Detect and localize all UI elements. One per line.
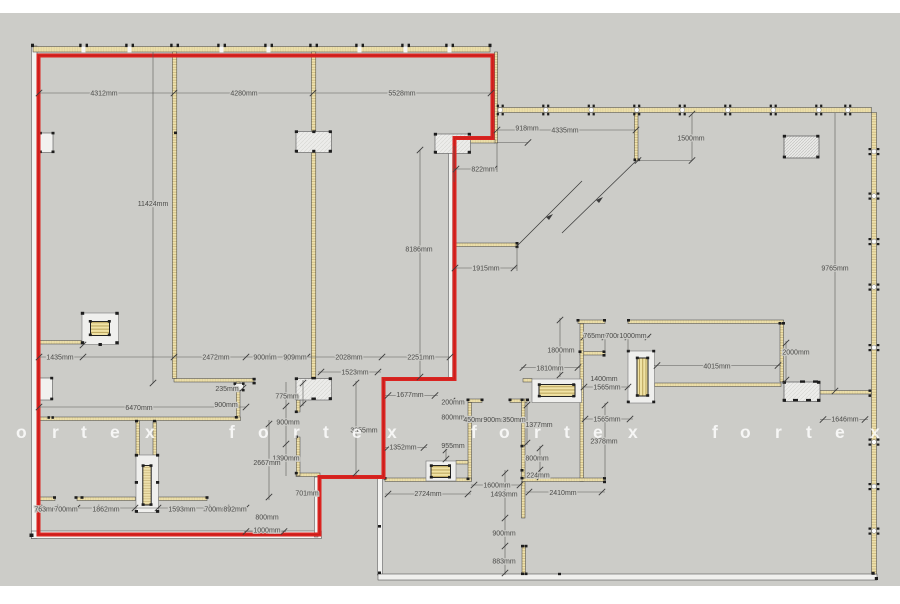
svg-text:9765mm: 9765mm	[821, 266, 848, 273]
svg-text:2410mm: 2410mm	[549, 490, 576, 497]
dimension 2000 line x=786	[785, 341, 787, 382]
wall: vertical stub x=298 lower	[296, 437, 300, 476]
dimension 235 leader	[240, 385, 246, 391]
watermark fortex block 2	[229, 422, 397, 442]
wall: bottom-wing south white band	[378, 574, 877, 580]
hatched column in right wing y=392	[783, 380, 821, 401]
svg-text:4280mm: 4280mm	[230, 91, 257, 98]
dimension 918/4335 line y=130	[497, 129, 636, 131]
wall: vertical x=523 lower stub to 518	[522, 482, 526, 519]
svg-text:900mm: 900mm	[492, 531, 516, 538]
svg-text:11424mm: 11424mm	[138, 201, 169, 208]
assorted black wall-end ticks	[30, 131, 879, 581]
dimension 8186 line x=420	[419, 150, 421, 377]
svg-text:1800mm: 1800mm	[547, 348, 574, 355]
dimension 4015 line y=365.5	[654, 365, 781, 367]
wall: wing interior vertical x=636	[634, 113, 638, 161]
wall: wing vertical x=582	[580, 324, 584, 482]
svg-text:800mm: 800mm	[255, 515, 279, 522]
wall: lower partition y=498 seg2	[77, 497, 136, 501]
svg-text:e: e	[835, 422, 845, 442]
wall: stub y=462	[456, 461, 468, 465]
svg-text:1810mm: 1810mm	[536, 366, 563, 373]
wall: stub y=401 seg1	[468, 399, 482, 403]
dimension 1352 line y=447.5	[385, 447, 427, 449]
dimension row y=508	[39, 507, 246, 509]
svg-text:4015mm: 4015mm	[703, 364, 730, 371]
dimension 1677 line y=395.5	[385, 395, 438, 397]
svg-text:r: r	[775, 422, 782, 442]
wall: bottom-wing west white band	[377, 478, 382, 575]
svg-text:e: e	[593, 422, 603, 442]
column box on wall B y=389	[295, 377, 332, 400]
svg-text:o: o	[499, 422, 510, 442]
svg-text:235mm: 235mm	[215, 386, 239, 393]
dimension 1000 line y=531	[244, 531, 286, 533]
wall: y=480 west segment	[385, 478, 472, 482]
svg-text:r: r	[52, 422, 59, 442]
svg-text:1565mm: 1565mm	[593, 385, 620, 392]
svg-text:4312mm: 4312mm	[90, 91, 117, 98]
svg-text:909mm: 909mm	[283, 355, 307, 362]
wall: wing partition y=322 seg1	[578, 320, 605, 324]
svg-text:2667mm: 2667mm	[253, 460, 280, 467]
svg-text:r: r	[293, 422, 300, 442]
svg-text:8186mm: 8186mm	[405, 247, 432, 254]
wall: vertical x=523	[522, 400, 526, 478]
dimension row y=357	[39, 356, 450, 358]
svg-text:o: o	[258, 422, 269, 442]
dimension 6470 line y=407	[39, 406, 246, 408]
watermark fortex block 4	[712, 422, 880, 442]
wall: right-wing west strip beside red	[495, 52, 498, 143]
wall: wing horizontal y=385	[655, 383, 782, 387]
dimension 1377 line x=527	[526, 403, 528, 445]
wall: right-wing top band	[498, 108, 872, 113]
svg-text:t: t	[564, 422, 570, 442]
wall: stub y=380 to wide box	[523, 379, 532, 383]
wall: horizontal band y=380 from wall A	[174, 379, 254, 383]
svg-text:765mm: 765mm	[583, 333, 607, 340]
column box on wall B y=142	[295, 130, 332, 152]
wall: top exterior band (left building)	[33, 47, 490, 53]
wall: white band left of red segment x=319	[314, 477, 318, 537]
column box on wall x=453 y=143	[434, 133, 471, 154]
dimension 9765 line x=835	[834, 113, 836, 391]
wall: left exterior white band	[31, 46, 37, 539]
svg-text:1000mm: 1000mm	[253, 527, 280, 534]
svg-text:900mm: 900mm	[253, 355, 277, 362]
wall: tan under red y=475	[296, 473, 320, 477]
stair shaft x=147 y=484	[135, 454, 159, 513]
svg-text:1593mm: 1593mm	[168, 507, 195, 514]
svg-text:f: f	[471, 422, 477, 442]
dimension 2378 line x=605	[604, 403, 606, 478]
svg-text:1862mm: 1862mm	[92, 507, 119, 514]
svg-text:t: t	[806, 422, 812, 442]
svg-text:2472mm: 2472mm	[202, 355, 229, 362]
dimension 1565 line y=387	[582, 386, 630, 388]
dimension 1646 line y=419.5	[820, 419, 868, 421]
wall: tan under red step y=141	[455, 140, 495, 144]
wall: wing stub y=353	[580, 352, 605, 356]
svg-text:t: t	[81, 422, 87, 442]
junction tick on east wall at y=392	[869, 390, 872, 397]
wall: stub y=401 seg2	[510, 399, 527, 403]
dimension 2410 line y=492	[526, 491, 605, 493]
svg-text:f: f	[229, 422, 235, 442]
dimension 1435 extension	[80, 342, 86, 348]
svg-text:700mm: 700mm	[54, 507, 78, 514]
wall: vertical x=470	[468, 403, 472, 481]
wall: corridor wall east x=155	[153, 421, 157, 458]
column box on left wall y=388	[37, 377, 53, 400]
svg-text:775mm: 775mm	[275, 394, 299, 401]
window gaps on top band	[82, 46, 452, 52]
svg-text:1400mm: 1400mm	[590, 376, 617, 383]
dimension 1800 line x=560	[559, 318, 561, 377]
small column box x=239 y=387	[234, 383, 245, 392]
svg-text:822mm: 822mm	[471, 167, 495, 174]
svg-text:t: t	[323, 422, 329, 442]
svg-text:200mm: 200mm	[441, 400, 465, 407]
dimension 800/224 line x=540	[539, 446, 541, 478]
svg-text:o: o	[740, 422, 751, 442]
svg-text:2251mm: 2251mm	[407, 355, 434, 362]
black ticks above top band	[31, 44, 492, 47]
svg-text:1915mm: 1915mm	[472, 266, 499, 273]
wall: interior vertical wall A x=174	[172, 52, 176, 379]
svg-text:800mm: 800mm	[441, 415, 465, 422]
watermark fortex block 3	[471, 422, 638, 442]
dimension 2667 line x=269	[268, 420, 270, 500]
wall: lower partition y=498 seg1	[39, 497, 55, 501]
svg-text:701mm: 701mm	[295, 491, 319, 498]
svg-text:o: o	[16, 422, 27, 442]
svg-text:883mm: 883mm	[492, 559, 516, 566]
wall: corridor wall west x=138	[136, 421, 140, 458]
wall: lower partition y=498 seg3	[159, 497, 208, 501]
svg-text:900mm: 900mm	[214, 402, 238, 409]
wall: 1915 stub y=244	[455, 243, 518, 247]
svg-text:1500mm: 1500mm	[677, 136, 704, 143]
svg-text:1600mm: 1600mm	[483, 483, 510, 490]
wall: y=480 east segment	[522, 478, 605, 482]
svg-text:e: e	[110, 422, 120, 442]
svg-text:1435mm: 1435mm	[46, 355, 73, 362]
svg-text:x: x	[387, 422, 397, 442]
window circles on right-wing top band	[497, 105, 852, 116]
wall: wing horizontal y=392 east	[820, 391, 872, 395]
svg-text:2724mm: 2724mm	[414, 491, 441, 498]
svg-text:224mm: 224mm	[526, 473, 550, 480]
wall: wing partition y=322 seg2	[628, 320, 784, 324]
hatched column in right wing y=147	[783, 135, 820, 159]
dimension 4312/4280/5528 line y=93	[39, 92, 491, 94]
wall: long interior wall y=418	[39, 417, 241, 421]
dimension 200 leader	[449, 398, 455, 404]
wall: vertical stub x=298 upper	[296, 400, 300, 412]
svg-text:1493mm: 1493mm	[490, 492, 517, 499]
wood column at x=100 y=328	[81, 312, 119, 346]
dimension 11424 line x=153	[152, 52, 154, 383]
svg-text:r: r	[534, 422, 541, 442]
red outline dark inner edge	[39, 56, 493, 535]
dimension 1600 line y=485	[471, 484, 523, 486]
watermark fortex block 1	[0, 422, 155, 442]
svg-text:1000mm: 1000mm	[619, 333, 646, 340]
dimension 822 line y=169	[453, 168, 497, 170]
svg-text:5528mm: 5528mm	[388, 91, 415, 98]
dimension 775 line x=303	[302, 380, 304, 406]
svg-text:800mm: 800mm	[525, 456, 549, 463]
svg-text:918mm: 918mm	[515, 126, 539, 133]
wall: bottom exterior white band (left building)	[31, 531, 321, 539]
wood column x=441 y=471	[426, 461, 456, 481]
leader diagonal 1	[517, 181, 582, 246]
wall: stub to column y=342	[39, 341, 82, 345]
svg-text:2028mm: 2028mm	[335, 355, 362, 362]
wall: vertical stub x=524 lower	[522, 546, 526, 574]
wall: right-wing east wall	[872, 113, 877, 575]
wall: interior white band at x=450 (below top-right step)	[448, 139, 452, 380]
wall: wing vertical x=782	[780, 324, 784, 383]
dimension 1565 line y=419	[582, 418, 633, 420]
dimension 765/700/1000 row y=337	[583, 336, 650, 338]
svg-text:1523mm: 1523mm	[341, 370, 368, 377]
wall: vertical stub x=238	[236, 382, 240, 418]
dimension 2724 line y=494	[385, 493, 471, 495]
dimension 900/1390 line x=286	[285, 382, 287, 476]
dimension 1493/900/883 line x=505	[504, 470, 506, 575]
svg-text:1677mm: 1677mm	[396, 392, 423, 399]
column box on left wall y=140	[39, 132, 55, 153]
svg-text:f: f	[712, 422, 718, 442]
svg-text:1352mm: 1352mm	[389, 445, 416, 452]
svg-text:x: x	[145, 422, 155, 442]
dimension 1915 line y=268	[455, 267, 517, 269]
svg-text:4335mm: 4335mm	[551, 128, 578, 135]
dimension 1523 line y=372	[318, 371, 381, 373]
window circles on right-wing east wall	[869, 148, 880, 535]
red selection outline of main unit	[39, 56, 493, 535]
leader diagonal 2	[562, 161, 636, 233]
dimension 3055 line x=356	[355, 381, 357, 476]
tall wood column x=641 y=377	[627, 350, 655, 403]
svg-text:892mm: 892mm	[223, 507, 247, 514]
dimension 955 line x=446	[445, 448, 447, 461]
wide wood column x=556 y=391	[532, 379, 582, 403]
svg-text:e: e	[352, 422, 362, 442]
dimension 1810 line y=367.5	[521, 367, 580, 369]
svg-text:x: x	[870, 422, 880, 442]
wall: interior vertical wall B x=313	[311, 52, 315, 379]
svg-text:955mm: 955mm	[441, 443, 465, 450]
svg-text:2000mm: 2000mm	[782, 350, 809, 357]
dimension 1500	[691, 114, 693, 161]
svg-text:x: x	[628, 422, 638, 442]
svg-text:6470mm: 6470mm	[125, 405, 152, 412]
